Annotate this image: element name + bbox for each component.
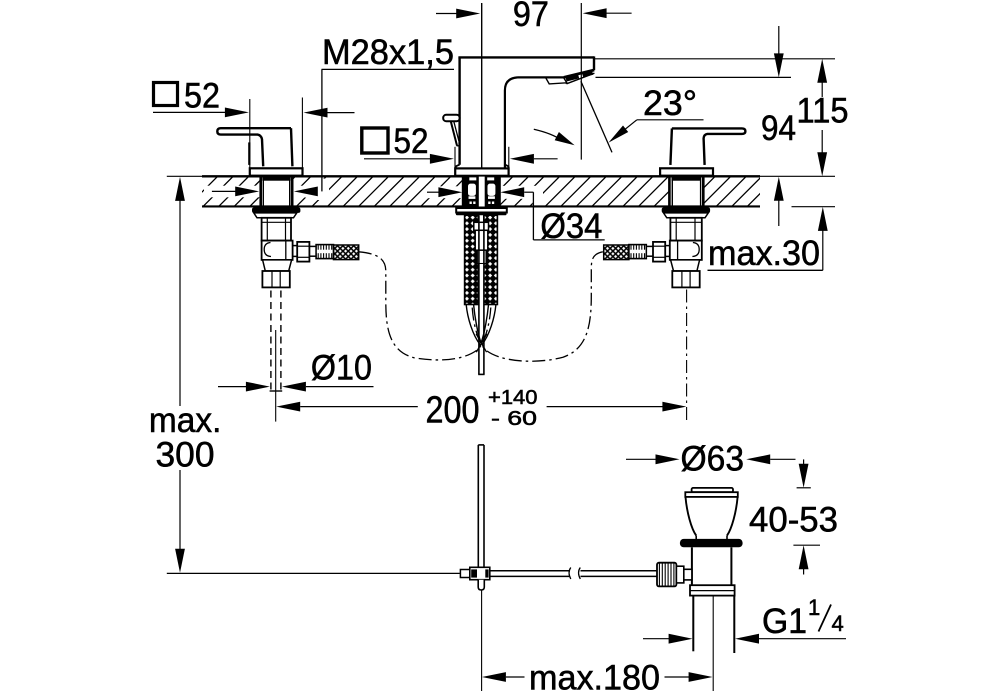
- right angle valve block: [670, 241, 702, 260]
- right shank seal band: [672, 177, 702, 181]
- left angle valve block: [262, 241, 293, 260]
- svg-text:max.: max.: [149, 401, 222, 440]
- svg-text:max.180: max.180: [529, 659, 660, 691]
- drain plug cap: [685, 488, 738, 497]
- right handle lever and post: [670, 128, 745, 165]
- right supply hex nipple: [672, 271, 699, 287]
- label diameter-34: [540, 207, 602, 246]
- center locknut: [456, 208, 507, 215]
- label 94: [761, 109, 796, 148]
- right outlet neck 2: [646, 246, 653, 256]
- right braided hose: [604, 245, 629, 260]
- svg-text:97: 97: [513, 0, 549, 34]
- countertop deck with section hatching: [172, 176, 777, 206]
- svg-text:300: 300: [156, 436, 215, 475]
- left outlet hex nut: [297, 242, 309, 262]
- spout tip extension line: [580, 3, 582, 160]
- label max.30: [708, 234, 820, 273]
- dimension 94: [774, 26, 784, 226]
- svg-text:+140: +140: [488, 387, 538, 409]
- label 200: [426, 390, 480, 432]
- right locknut chamfer: [664, 213, 709, 218]
- coupler lower stub: [478, 580, 484, 590]
- left shank deck arrows: [212, 187, 259, 197]
- deck top edge line: [202, 175, 760, 177]
- label tolerance +140: [488, 387, 538, 409]
- svg-text:max.30: max.30: [708, 234, 820, 273]
- svg-text:23°: 23°: [643, 84, 697, 123]
- 23 degree leader: [609, 120, 704, 143]
- 23 degree stream line: [581, 81, 612, 152]
- label square-52 center: [362, 122, 429, 161]
- right locknut: [662, 208, 710, 213]
- label max. 300: [149, 401, 222, 475]
- label 40-53: [749, 501, 838, 540]
- aerator ring housing: [546, 78, 567, 84]
- center faucet side lever: [443, 115, 459, 146]
- drain funnel flange: [686, 497, 738, 539]
- horizontal rod section A: [490, 571, 570, 577]
- svg-text:40-53: 40-53: [749, 501, 838, 540]
- left escutcheon extension lines: [250, 98, 303, 168]
- svg-text:Ø10: Ø10: [311, 349, 372, 388]
- dimension max.30: [708, 207, 828, 270]
- right hose knurled ferrule: [629, 245, 646, 259]
- dimension square52 left arrows: [153, 108, 355, 118]
- left valve body: [262, 218, 291, 241]
- dimension max.180: [482, 672, 713, 682]
- svg-text:52: 52: [184, 77, 220, 116]
- right valve body: [670, 218, 701, 241]
- label 97: [513, 0, 549, 34]
- M28x1,5 leader: [294, 69, 454, 196]
- center faucet escutcheon base plate: [455, 168, 508, 175]
- right valve outlet neck: [665, 246, 670, 257]
- rod break marks: [569, 568, 580, 580]
- svg-text:Ø34: Ø34: [540, 207, 602, 246]
- left unit centerline lower: [275, 330, 277, 422]
- deck hole gaps (white): [204, 175, 703, 208]
- label G1 1/4: [762, 595, 844, 641]
- left hose knurled ferrule: [316, 245, 333, 259]
- drain knurled adjuster knob: [657, 563, 676, 587]
- center faucet base flare: [456, 165, 509, 169]
- svg-text:G1: G1: [762, 602, 807, 641]
- center pull rod: [478, 215, 484, 374]
- left handle escutcheon: [250, 168, 303, 175]
- drain seal ring: [680, 539, 743, 547]
- flexible hose path right-to-left (dash-dot): [472, 252, 603, 361]
- label diameter-63: [681, 440, 745, 479]
- dimension diameter-10: [218, 349, 374, 392]
- left supply hex nipple: [262, 271, 289, 287]
- label M28x1,5: [322, 33, 454, 72]
- vertical pull rod to coupler: [478, 445, 484, 567]
- dimension 200 line: [276, 402, 686, 412]
- center faucet vertical centerline: [481, 3, 483, 176]
- rod plane line: [167, 572, 460, 574]
- dimension diameter-63: [626, 454, 796, 464]
- left deck hole edges: [261, 176, 293, 206]
- dimension square52 center arrows: [364, 154, 558, 164]
- svg-text:4: 4: [832, 611, 844, 636]
- deck bottom reference extension right: [792, 206, 836, 208]
- right outlet hex nut: [653, 242, 665, 262]
- svg-text:94: 94: [761, 109, 796, 148]
- center base extension ticks: [455, 147, 509, 168]
- dimension diameter-34 arrows: [427, 187, 605, 240]
- left locknut: [252, 208, 300, 213]
- left shank seal band: [262, 177, 290, 181]
- right unit centerline (dash-dot): [686, 290, 688, 421]
- drain tailpipe: [693, 596, 734, 653]
- hose paths crossing mark: [476, 334, 487, 352]
- label square-52 left: [154, 77, 221, 116]
- spout aerator outlet (tilted): [564, 70, 595, 84]
- label 115: [797, 92, 849, 131]
- hose tail curves: [466, 305, 496, 345]
- center hole edges: [463, 176, 500, 206]
- left supply chamfer: [263, 260, 292, 271]
- center deck hole thread section: [463, 177, 500, 207]
- spout outlet reference line 94: [596, 76, 792, 78]
- spout height reference line 115: [595, 58, 836, 60]
- drain centerline: [712, 596, 714, 691]
- center faucet body outline: [458, 56, 594, 164]
- left outlet neck 2: [309, 246, 316, 256]
- center braided hose columns: [465, 215, 498, 304]
- deck top reference extension right: [760, 175, 835, 177]
- svg-text:52: 52: [394, 122, 429, 161]
- deck bottom edge line: [202, 205, 760, 207]
- left locknut chamfer: [254, 213, 297, 218]
- label tolerance -60: [491, 408, 537, 430]
- svg-text:115: 115: [797, 92, 849, 131]
- pull rod connector pieces: [474, 222, 489, 263]
- svg-text:- 60: - 60: [491, 408, 537, 430]
- dimension max300 line: [175, 177, 185, 573]
- dimension G1-1/4: [643, 634, 846, 644]
- dimension 97 line and arrows: [436, 8, 632, 18]
- drain coupling ring: [690, 585, 735, 595]
- label max.180: [529, 659, 660, 691]
- right supply chamfer: [671, 260, 700, 271]
- horizontal rod section B: [581, 571, 658, 577]
- left pull rod hidden outline (dashed): [270, 291, 283, 392]
- svg-text:M28x1,5: M28x1,5: [322, 33, 454, 72]
- label 23 degrees: [643, 84, 697, 123]
- left braided hose: [334, 245, 359, 260]
- dimension 115: [817, 59, 827, 177]
- deck top reference extension left: [167, 175, 202, 177]
- svg-text:1: 1: [808, 595, 820, 620]
- dimension 40-53: [793, 459, 820, 574]
- right deck hole edges: [669, 176, 703, 206]
- rod coupler: [460, 567, 489, 579]
- drain valve body: [692, 547, 732, 585]
- left handle lever and post: [217, 128, 292, 166]
- center lower guide line: [481, 591, 483, 691]
- svg-text:200: 200: [426, 390, 480, 432]
- swivel arc arrow: [534, 129, 575, 145]
- flexible hose path left-to-right (dash-dot): [359, 252, 491, 360]
- left valve outlet neck: [293, 246, 298, 257]
- spout underside and inner profile: [505, 77, 564, 168]
- right handle escutcheon: [660, 168, 713, 175]
- svg-text:Ø63: Ø63: [681, 440, 745, 479]
- drain knob linkage: [676, 566, 691, 583]
